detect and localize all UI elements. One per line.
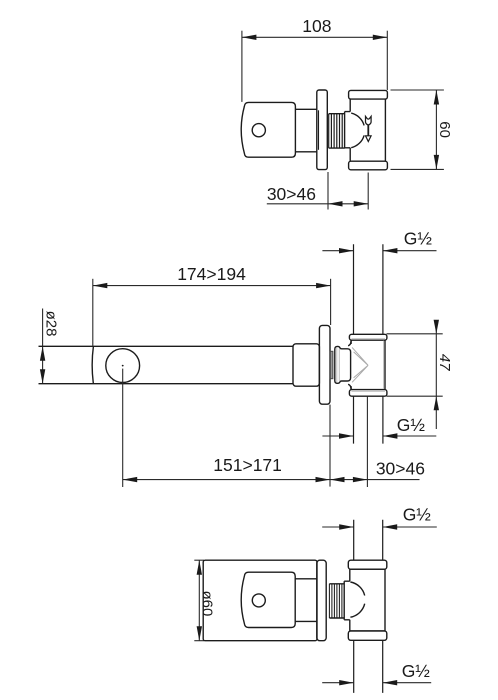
handle (top view) [241, 102, 295, 157]
flow arrow shaft (top view) [367, 125, 369, 136]
dimension ø28 arrows [40, 346, 45, 361]
spout bottom edge / ø28 extension [39, 383, 294, 385]
connection nut silhouette (middle view) [335, 346, 351, 383]
valve neck face (top view) [344, 112, 346, 148]
supply pipe lines top (middle view) [354, 244, 383, 334]
wall extension line (middle view) [329, 405, 331, 487]
handle stem (top view) [295, 109, 316, 152]
dimension 30>46 extension lines (top view) [328, 172, 368, 210]
neck hook bottom (middle view) [348, 384, 351, 389]
svg-text:G½: G½ [397, 415, 426, 435]
dimension ø28 line [42, 309, 44, 384]
handle screw circle (top view) [252, 124, 265, 137]
G1/2 dimension bottom (middle view) [322, 435, 436, 437]
svg-text:ø28: ø28 [42, 311, 59, 337]
svg-text:G½: G½ [402, 661, 431, 681]
dimension 108 right arrow [373, 35, 388, 40]
dimension 47 arrows (outside) [434, 320, 439, 334]
handle (bottom view) [241, 572, 295, 627]
svg-text:60: 60 [436, 121, 453, 138]
svg-text:47: 47 [436, 354, 453, 371]
threaded nipple gray (middle view) [330, 351, 333, 378]
valve neck steps (top view) [345, 112, 351, 148]
dimension 174>194 line [93, 285, 331, 287]
dimension 47 extension lines [387, 334, 443, 396]
supply pipe lines bottom (bottom view) [354, 640, 383, 693]
dimension 47 line [435, 324, 437, 430]
svg-text:ø60: ø60 [199, 590, 216, 616]
cartridge arc lower (top view) [351, 135, 364, 147]
dimension 151>171 / 30>46 shared line [123, 479, 420, 481]
valve neck face (bottom view) [343, 581, 345, 620]
dimension 108 extension lines [242, 31, 387, 102]
dimension 60 extension lines [391, 90, 444, 169]
spout base block (middle view) [293, 344, 319, 386]
valve body right inner line (middle view) [383, 341, 385, 389]
svg-text:174>194: 174>194 [177, 264, 246, 284]
valve body bottom cap (top view) [349, 161, 388, 170]
valve body top cap inner line (middle view) [352, 338, 386, 340]
wall flange bar (bottom view) [317, 560, 326, 641]
valve body bottom cap (middle view) [349, 390, 387, 397]
aerator leader line [122, 369, 124, 487]
dimension 30>46 arrows (top view) [328, 201, 343, 206]
neck hook top (middle view) [348, 340, 351, 345]
spout tip curve [92, 346, 93, 383]
dimension 151>171 arrows [123, 477, 138, 482]
stem end line behind flange (top view) [318, 110, 320, 150]
handle screw circle (bottom view) [252, 594, 265, 607]
dimension 174>194 extension lines [93, 279, 331, 346]
valve body (bottom view) [350, 569, 385, 631]
threaded nipple (top view) [329, 114, 345, 148]
dimension 60 arrows [434, 90, 439, 105]
spout top edge / ø28 extension [39, 345, 294, 347]
cartridge arc lower (bottom view) [350, 604, 364, 618]
cone chevron lower (middle view) [352, 365, 368, 382]
connection nut inner lines (middle view) [337, 348, 340, 383]
handle stem (bottom view) [295, 579, 317, 622]
pipe center line (middle view) [366, 396, 368, 487]
valve body bottom cap inner line (middle view) [352, 390, 386, 392]
supply pipe lines top (bottom view) [354, 520, 383, 560]
valve body (top view) [350, 99, 385, 161]
G1/2 dimension top (bottom view) [322, 526, 437, 528]
svg-text:G½: G½ [403, 504, 432, 524]
valve body top cap (middle view) [349, 334, 387, 340]
dimension ø60 extension lines [194, 560, 204, 641]
flow arrow open head (top view) [366, 136, 372, 142]
rosette rectangle (bottom view) [203, 560, 317, 641]
cartridge arc upper (bottom view) [350, 582, 364, 596]
G1/2 dimension top (middle view) [322, 250, 436, 252]
dimension 108 left arrow [242, 35, 257, 40]
valve body top cap (bottom view) [348, 560, 387, 569]
svg-text:151>171: 151>171 [213, 455, 282, 475]
dimension ø60 line [198, 560, 200, 641]
dimension 30>46 arrows (middle view) [330, 477, 345, 482]
aerator circle [106, 349, 140, 383]
svg-text:108: 108 [302, 16, 331, 36]
cone chevron upper (middle view) [352, 347, 368, 365]
flow arrow fletching (top view) [366, 116, 372, 125]
G1/2 dimension bottom (bottom view) [322, 682, 431, 684]
valve neck steps (bottom view) [344, 581, 350, 620]
threaded nipple (bottom view) [329, 584, 344, 618]
dimension 174>194 arrows [93, 283, 108, 288]
svg-text:30>46: 30>46 [267, 184, 316, 204]
supply pipe lines bottom (middle view) [354, 396, 383, 443]
valve body (middle view) [351, 340, 385, 390]
dimension ø60 arrows [197, 560, 202, 575]
valve body top cap (top view) [349, 90, 388, 99]
dimension 30>46 line (top view) [267, 203, 368, 205]
wall rosette (middle view) [319, 325, 330, 404]
svg-text:G½: G½ [404, 229, 433, 249]
dimension 60 line [435, 90, 437, 169]
dimension 108 line [242, 36, 387, 38]
wall flange bar (top view) [317, 90, 328, 170]
aerator center dot [122, 365, 124, 367]
cartridge arc upper (top view) [351, 113, 364, 125]
valve body bottom cap (bottom view) [348, 631, 387, 640]
svg-text:30>46: 30>46 [376, 458, 425, 478]
